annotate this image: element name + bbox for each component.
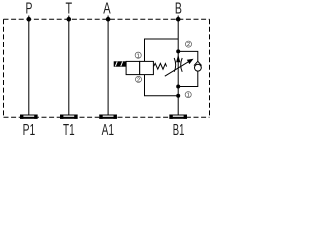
spring bbox=[154, 63, 167, 69]
svg-text:1: 1 bbox=[137, 53, 140, 59]
svg-text:P1: P1 bbox=[23, 122, 36, 137]
port symbol T1 bbox=[60, 115, 78, 119]
wire valve top to B line bbox=[145, 39, 179, 61]
junction dot B bbox=[176, 17, 181, 22]
port symbol P1 bbox=[20, 115, 38, 119]
svg-text:2: 2 bbox=[137, 78, 140, 84]
svg-text:2: 2 bbox=[187, 42, 190, 48]
svg-text:A: A bbox=[103, 1, 111, 18]
manifold block outline (dashed) bbox=[4, 19, 210, 117]
wire valve bottom to B line bbox=[145, 75, 179, 96]
junction dot P bbox=[27, 17, 32, 22]
wire B line bbox=[177, 16, 179, 115]
svg-text:B1: B1 bbox=[173, 122, 185, 137]
check valve seat bbox=[194, 61, 202, 65]
adjustment arrow (diagonal) bbox=[165, 59, 194, 76]
circled port number 1 (B line lower) bbox=[185, 92, 191, 99]
valve body (2-position) bbox=[126, 61, 153, 74]
port symbol A1 bbox=[99, 115, 117, 119]
check valve branch wire bbox=[178, 51, 198, 86]
wire A line bbox=[107, 16, 109, 115]
junction dot B line check branch bbox=[176, 85, 180, 89]
svg-text:B: B bbox=[175, 1, 182, 18]
throttle arcs bbox=[174, 58, 182, 72]
svg-text:P: P bbox=[25, 1, 32, 18]
check valve ball bbox=[195, 64, 202, 71]
svg-text:1: 1 bbox=[187, 93, 190, 99]
flow arrow on B line bbox=[176, 55, 180, 63]
svg-text:A1: A1 bbox=[102, 122, 114, 137]
junction dot A bbox=[106, 17, 111, 22]
wire P line bbox=[28, 16, 30, 115]
port symbol B1 bbox=[169, 115, 187, 119]
junction dot B line valve return bbox=[176, 94, 180, 98]
svg-text:T1: T1 bbox=[63, 122, 75, 137]
junction dot B line upper bbox=[176, 49, 180, 53]
svg-text:T: T bbox=[66, 1, 73, 18]
solenoid actuator bbox=[114, 61, 126, 66]
junction dot T bbox=[67, 17, 72, 22]
circled port number 1 (valve top) bbox=[135, 52, 141, 59]
circled port number 2 (valve bottom) bbox=[135, 76, 141, 83]
circled port number 2 (B line upper) bbox=[185, 41, 191, 48]
wire T line bbox=[68, 16, 70, 115]
